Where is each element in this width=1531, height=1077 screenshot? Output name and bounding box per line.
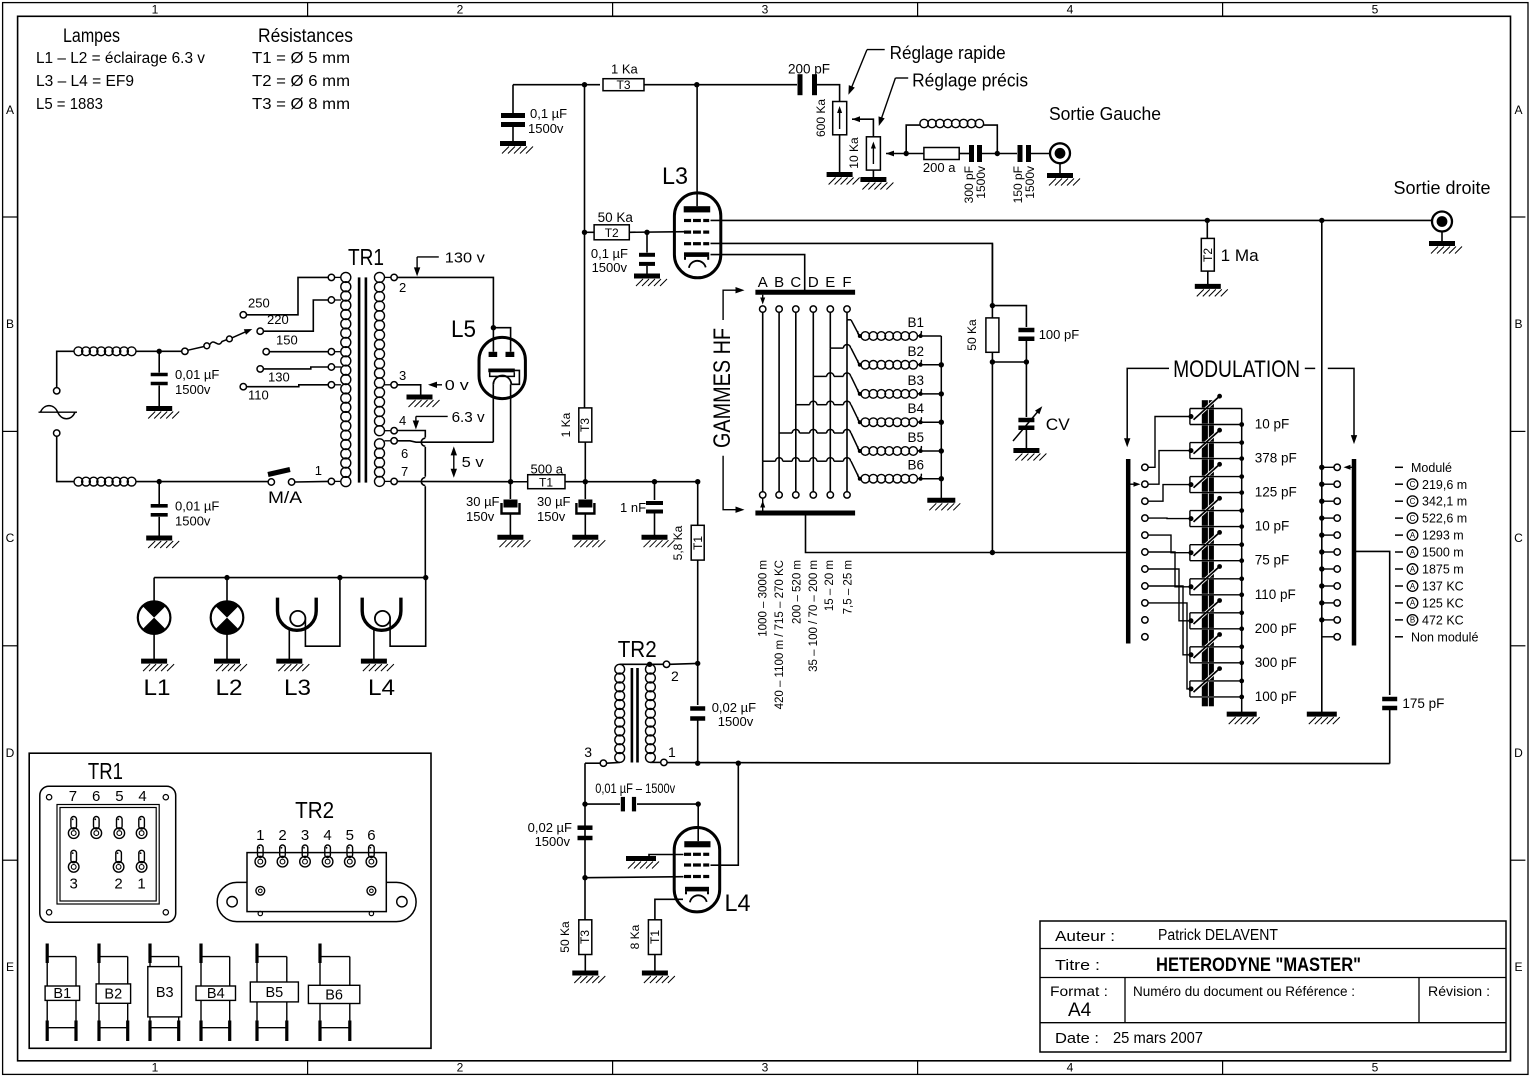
svg-text:420 – 1100 m / 715 – 270 KC: 420 – 1100 m / 715 – 270 KC: [774, 560, 786, 709]
svg-text:Numéro du document ou Référenc: Numéro du document ou Référence :: [1133, 984, 1355, 999]
svg-text:2: 2: [114, 876, 122, 893]
svg-text:E: E: [825, 274, 835, 291]
svg-text:4: 4: [399, 413, 406, 428]
svg-text:Réglage précis: Réglage précis: [912, 71, 1028, 91]
svg-text:D: D: [808, 274, 819, 291]
svg-text:L4: L4: [725, 890, 751, 917]
svg-text:T1: T1: [648, 930, 662, 944]
svg-text:4: 4: [138, 788, 146, 805]
svg-text:Révision :: Révision :: [1428, 984, 1490, 999]
svg-text:Date :: Date :: [1055, 1031, 1099, 1047]
svg-text:6: 6: [367, 827, 375, 844]
svg-text:Réglage rapide: Réglage rapide: [890, 43, 1006, 63]
svg-text:Résistances: Résistances: [258, 26, 353, 47]
svg-text:A: A: [1514, 103, 1522, 117]
svg-text:150v: 150v: [466, 509, 495, 524]
svg-text:B2: B2: [104, 987, 122, 1003]
svg-text:600 Ka: 600 Ka: [814, 99, 828, 137]
svg-text:130: 130: [268, 370, 290, 385]
svg-text:Titre :: Titre :: [1055, 958, 1100, 974]
svg-text:B4: B4: [207, 986, 225, 1002]
svg-text:L5 = 1883: L5 = 1883: [36, 96, 103, 113]
svg-text:0,02 µF: 0,02 µF: [712, 700, 756, 715]
svg-text:3: 3: [399, 368, 406, 383]
svg-text:0,1 µF: 0,1 µF: [591, 246, 628, 261]
svg-text:1500v: 1500v: [974, 166, 988, 199]
svg-text:110 pF: 110 pF: [1255, 587, 1296, 602]
svg-text:F: F: [842, 274, 851, 291]
svg-text:8 Ka: 8 Ka: [628, 924, 642, 949]
svg-text:25 mars 2007: 25 mars 2007: [1113, 1030, 1203, 1047]
svg-text:Modulé: Modulé: [1411, 461, 1452, 475]
svg-text:7: 7: [401, 464, 408, 479]
svg-text:472 KC: 472 KC: [1422, 613, 1464, 627]
svg-text:L5: L5: [451, 316, 476, 343]
svg-text:TR1: TR1: [88, 758, 123, 784]
svg-text:A: A: [1410, 599, 1416, 608]
svg-text:T1 = Ø 5 mm: T1 = Ø 5 mm: [252, 50, 350, 67]
svg-text:HETERODYNE "MASTER": HETERODYNE "MASTER": [1156, 955, 1361, 976]
svg-text:D: D: [6, 746, 15, 760]
svg-text:50 Ka: 50 Ka: [598, 210, 634, 225]
svg-text:2: 2: [278, 827, 286, 844]
svg-text:1: 1: [137, 876, 145, 893]
svg-text:E: E: [1514, 960, 1522, 974]
svg-text:100 pF: 100 pF: [1255, 689, 1297, 704]
svg-text:0,02 µF: 0,02 µF: [528, 820, 572, 835]
svg-text:5: 5: [1372, 3, 1379, 17]
svg-text:10 pF: 10 pF: [1255, 417, 1290, 432]
svg-text:137 KC: 137 KC: [1422, 579, 1464, 593]
svg-text:1500 m: 1500 m: [1422, 546, 1464, 560]
svg-text:250: 250: [248, 296, 270, 311]
svg-text:6: 6: [92, 788, 100, 805]
svg-text:30 µF: 30 µF: [466, 494, 500, 509]
svg-text:2: 2: [457, 3, 464, 17]
svg-text:L3: L3: [284, 675, 311, 700]
svg-text:L2: L2: [216, 675, 243, 700]
svg-text:5: 5: [115, 788, 123, 805]
svg-text:TR2: TR2: [295, 797, 334, 823]
svg-text:1500v: 1500v: [535, 834, 571, 849]
svg-text:2: 2: [399, 280, 406, 295]
svg-text:1500v: 1500v: [175, 382, 211, 397]
svg-text:MODULATION: MODULATION: [1173, 356, 1300, 383]
svg-text:L3: L3: [662, 163, 688, 190]
svg-text:150: 150: [276, 333, 298, 348]
svg-text:7,5 – 25 m: 7,5 – 25 m: [843, 560, 855, 614]
svg-text:200 – 520 m: 200 – 520 m: [792, 560, 804, 624]
svg-text:0,1 µF: 0,1 µF: [530, 106, 567, 121]
svg-text:75 pF: 75 pF: [1255, 553, 1290, 568]
svg-text:500 a: 500 a: [531, 462, 564, 477]
svg-text:0 v: 0 v: [445, 378, 470, 394]
svg-text:T3: T3: [578, 930, 592, 944]
svg-text:200 a: 200 a: [923, 160, 956, 175]
svg-text:1 Ka: 1 Ka: [559, 412, 573, 437]
svg-text:1: 1: [152, 1061, 159, 1075]
svg-text:C: C: [790, 274, 801, 291]
svg-text:A4: A4: [1068, 1000, 1092, 1021]
svg-text:TR2: TR2: [618, 636, 657, 662]
svg-text:219,6 m: 219,6 m: [1422, 478, 1467, 492]
svg-text:1293 m: 1293 m: [1422, 529, 1464, 543]
svg-text:125 KC: 125 KC: [1422, 596, 1464, 610]
svg-text:GAMMES HF: GAMMES HF: [709, 328, 736, 448]
svg-text:B4: B4: [908, 401, 925, 416]
svg-text:M/A: M/A: [268, 489, 302, 507]
svg-text:A: A: [1410, 531, 1416, 540]
svg-text:B1: B1: [53, 986, 71, 1002]
svg-text:110: 110: [248, 388, 269, 403]
svg-text:3: 3: [762, 3, 769, 17]
svg-text:6: 6: [401, 446, 408, 461]
svg-text:125 pF: 125 pF: [1255, 485, 1297, 500]
svg-text:2: 2: [671, 668, 679, 684]
svg-text:1 Ma: 1 Ma: [1221, 247, 1260, 265]
svg-text:130 v: 130 v: [445, 251, 486, 267]
svg-text:1: 1: [668, 744, 676, 760]
svg-text:L1: L1: [144, 675, 171, 700]
svg-text:A: A: [758, 274, 768, 291]
svg-text:1500v: 1500v: [592, 260, 628, 275]
svg-text:1500v: 1500v: [1023, 166, 1037, 199]
svg-text:C: C: [1410, 497, 1416, 506]
svg-text:175 pF: 175 pF: [1402, 696, 1444, 711]
svg-text:0,01 µF: 0,01 µF: [175, 367, 219, 382]
svg-text:B5: B5: [908, 430, 925, 445]
svg-text:50 Ka: 50 Ka: [558, 921, 572, 953]
svg-text:A: A: [6, 103, 14, 117]
svg-text:Auteur :: Auteur :: [1055, 929, 1115, 945]
svg-text:200 pF: 200 pF: [788, 62, 830, 77]
svg-text:T2: T2: [1201, 248, 1215, 262]
svg-text:100 pF: 100 pF: [1039, 327, 1080, 342]
svg-text:B1: B1: [908, 315, 925, 330]
svg-text:C: C: [1410, 480, 1416, 489]
svg-text:C: C: [1514, 531, 1523, 545]
svg-text:300 pF: 300 pF: [1255, 655, 1297, 670]
svg-text:3: 3: [762, 1061, 769, 1075]
svg-text:1: 1: [256, 827, 264, 844]
svg-text:4: 4: [323, 827, 331, 844]
svg-text:4: 4: [1067, 1061, 1074, 1075]
svg-text:1: 1: [152, 3, 159, 17]
svg-text:5 v: 5 v: [462, 455, 485, 471]
svg-text:E: E: [6, 960, 14, 974]
svg-text:T1: T1: [539, 476, 553, 490]
svg-text:522,6 m: 522,6 m: [1422, 512, 1467, 526]
svg-text:B: B: [774, 274, 784, 291]
svg-text:3: 3: [584, 744, 592, 760]
svg-text:7: 7: [69, 788, 77, 805]
svg-text:2: 2: [457, 1061, 464, 1075]
svg-text:D: D: [1514, 746, 1523, 760]
svg-text:A: A: [1410, 548, 1416, 557]
svg-text:Lampes: Lampes: [63, 26, 120, 47]
svg-text:1000 – 3000 m: 1000 – 3000 m: [758, 560, 770, 637]
svg-text:200 pF: 200 pF: [1255, 621, 1297, 636]
svg-text:B6: B6: [908, 458, 925, 473]
svg-text:CV: CV: [1046, 416, 1070, 434]
svg-text:30 µF: 30 µF: [537, 494, 571, 509]
svg-text:L4: L4: [368, 675, 395, 700]
svg-text:35 – 100 / 70 – 200 m: 35 – 100 / 70 – 200 m: [808, 560, 820, 672]
svg-text:0,01 µF – 1500v: 0,01 µF – 1500v: [595, 781, 675, 796]
svg-text:3: 3: [70, 876, 78, 893]
svg-text:Format :: Format :: [1050, 984, 1108, 999]
svg-text:0,01 µF: 0,01 µF: [175, 499, 219, 514]
svg-text:B: B: [1514, 317, 1522, 331]
svg-text:B: B: [1410, 616, 1415, 625]
svg-text:6.3 v: 6.3 v: [452, 410, 486, 426]
svg-text:Patrick DELAVENT: Patrick DELAVENT: [1158, 927, 1278, 944]
svg-text:C: C: [1410, 514, 1416, 523]
svg-text:T1: T1: [691, 536, 705, 550]
svg-text:1500v: 1500v: [528, 121, 564, 136]
svg-text:378 pF: 378 pF: [1255, 451, 1297, 466]
svg-text:342,1 m: 342,1 m: [1422, 495, 1467, 509]
svg-text:1500v: 1500v: [718, 714, 754, 729]
svg-text:10 Ka: 10 Ka: [847, 137, 861, 169]
svg-text:B5: B5: [266, 985, 284, 1001]
svg-text:T3: T3: [578, 418, 592, 432]
svg-text:B6: B6: [325, 987, 343, 1003]
svg-text:50 Ka: 50 Ka: [965, 319, 979, 351]
svg-text:Sortie droite: Sortie droite: [1394, 178, 1491, 198]
svg-text:T2: T2: [605, 226, 619, 240]
svg-text:4: 4: [1067, 3, 1074, 17]
svg-text:C: C: [6, 531, 15, 545]
svg-text:15 – 20 m: 15 – 20 m: [824, 560, 836, 611]
svg-text:T2 = Ø 6 mm: T2 = Ø 6 mm: [252, 73, 350, 90]
svg-text:1 Ka: 1 Ka: [611, 62, 639, 77]
svg-text:L1 – L2 = éclairage 6.3 v: L1 – L2 = éclairage 6.3 v: [36, 50, 205, 67]
svg-text:A: A: [1410, 565, 1416, 574]
svg-text:150v: 150v: [537, 509, 566, 524]
svg-text:5: 5: [1372, 1061, 1379, 1075]
svg-text:A: A: [1410, 582, 1416, 591]
svg-text:B: B: [6, 317, 14, 331]
svg-text:10 pF: 10 pF: [1255, 519, 1290, 534]
svg-text:TR1: TR1: [348, 244, 384, 270]
svg-text:L3 – L4 = EF9: L3 – L4 = EF9: [36, 73, 134, 90]
svg-text:1875 m: 1875 m: [1422, 563, 1464, 577]
svg-text:T3 = Ø 8 mm: T3 = Ø 8 mm: [252, 96, 350, 113]
svg-text:T3: T3: [616, 78, 630, 92]
svg-text:1: 1: [315, 463, 322, 478]
svg-text:3: 3: [301, 827, 309, 844]
svg-text:B3: B3: [908, 373, 925, 388]
svg-text:B3: B3: [156, 985, 174, 1001]
svg-text:5,8 Ka: 5,8 Ka: [671, 525, 685, 560]
svg-text:Non modulé: Non modulé: [1411, 630, 1478, 644]
svg-text:B2: B2: [908, 344, 925, 359]
svg-text:1500v: 1500v: [175, 514, 211, 529]
svg-text:1 nF: 1 nF: [620, 500, 646, 515]
svg-text:5: 5: [346, 827, 354, 844]
svg-text:Sortie Gauche: Sortie Gauche: [1049, 104, 1161, 124]
